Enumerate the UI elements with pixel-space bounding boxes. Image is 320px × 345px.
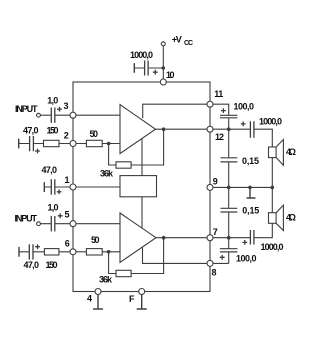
svg-text:47,0: 47,0 (24, 260, 40, 270)
label +Vcc (172, 35, 193, 48)
node pin-9 wire / cap junction (227, 186, 231, 190)
label pin 2 (64, 130, 69, 140)
capacitor 100,0 (pin 7 - pin 8): lead top (228, 238, 230, 249)
bias block rectangle (120, 176, 157, 197)
capacitor 47,0 (row 6): plus mark (35, 244, 40, 249)
label 1000,0 (output 1) (259, 117, 282, 127)
capacitor 1000,0 output 2: plates (250, 230, 254, 245)
svg-text:INPUT: INPUT (15, 104, 38, 114)
label 47,0 (row 2) (23, 125, 39, 135)
svg-text:1000,0: 1000,0 (259, 117, 282, 127)
node 50-resistor / feedback junction (bottom) (107, 250, 111, 254)
resistor 150 (row 2) (44, 140, 60, 146)
svg-text:7: 7 (213, 227, 218, 237)
label pin 9 (213, 177, 218, 187)
wire feedback loop U1.2 (109, 238, 164, 274)
resistor 150 (row 6) (44, 249, 59, 255)
label 150 (row 2) (47, 125, 59, 135)
wire feedback loop U1.1 (109, 129, 164, 165)
capacitor 47,0 (row 2): plates (30, 136, 34, 151)
wire U1.1 output row (apex to pin 12 to cap) (156, 128, 251, 130)
capacitor 0,15 (pin 9 - pin 7): plates (221, 208, 238, 212)
svg-text:1,0: 1,0 (47, 96, 58, 106)
wire pin 7 output row right / speaker 2 bottom (255, 223, 273, 237)
capacitor 47,0 (row 6): plates (29, 244, 33, 259)
svg-text:150: 150 (46, 260, 58, 270)
pin 6 (70, 249, 76, 255)
label pin F (129, 294, 135, 304)
svg-text:12: 12 (215, 132, 224, 142)
loudspeaker 1 (4 ohm): cone (276, 140, 283, 166)
pin F (139, 289, 145, 295)
resistor 36k (U1.2) (116, 270, 131, 276)
node pin-7 wire / cap junction (227, 236, 231, 240)
capacitor 100,0 (pin 11 - pin 12): plus mark (221, 108, 226, 113)
label 4 ohm (speaker 1) (286, 147, 296, 157)
label pin 5 (65, 209, 70, 219)
terminal INPUT 1 (37, 113, 41, 117)
pin 10 (160, 79, 166, 85)
capacitor 0,15 (pin 12 - pin 9): lead bottom (228, 162, 230, 187)
terminal +Vcc (161, 42, 165, 46)
capacitor 1000,0 output 2: plus mark (242, 240, 247, 245)
pin 5 (70, 221, 76, 227)
terminal INPUT 2 (37, 222, 41, 226)
IC box (73, 82, 210, 292)
label pin 3 (64, 101, 69, 111)
ground symbol (pin F) (137, 295, 147, 310)
label 100,0 (bottom) (236, 253, 257, 263)
wire feedback return row pin 2 (19, 143, 120, 145)
pin 12 (207, 126, 213, 132)
capacitor 100,0 (pin 11 - pin 12): lead (228, 118, 230, 129)
capacitor 100,0 (pin 7 - pin 8): plus mark (220, 255, 225, 260)
pin 9 (207, 184, 213, 190)
pin 2 (70, 141, 76, 147)
svg-text:1: 1 (218, 89, 223, 99)
wire input row pin 3 (40, 114, 120, 116)
svg-text:1000,0: 1000,0 (130, 50, 153, 60)
ground symbol (pin 9 row) (247, 187, 256, 198)
label 36k (U1.2) (99, 274, 113, 284)
loudspeaker 1 (4 ohm): frame (269, 147, 277, 158)
wire +Vcc vertical (162, 46, 164, 82)
svg-text:8: 8 (212, 268, 217, 278)
label INPUT 1 (15, 104, 38, 114)
node Vcc/cap junction (162, 66, 166, 70)
svg-text:5: 5 (65, 209, 70, 219)
wire U1.1 top-slope tap to pin 11 (143, 104, 229, 118)
svg-text:4Ω: 4Ω (286, 147, 296, 157)
capacitor 1000,0 output 1: plus mark (241, 122, 246, 127)
label pin 7 (213, 227, 218, 237)
capacitor 100,0 (pin 7 - pin 8): lead bottom (228, 252, 230, 263)
capacitor 1,0 input 2: plus mark (58, 213, 63, 218)
node U1.1 output junction (162, 127, 166, 131)
node pin-9 wire / speaker column (271, 186, 275, 190)
label 4 ohm (speaker 2) (286, 212, 296, 222)
capacitor 100,0 (pin 11 - pin 12): plates (220, 115, 238, 118)
svg-text:47,0: 47,0 (23, 125, 39, 135)
capacitor 0,15 (pin 12 - pin 9): plates (221, 158, 238, 162)
pin 4 (95, 289, 101, 295)
wire feedback return row pin 6 (19, 251, 120, 253)
svg-text:4: 4 (87, 294, 92, 304)
label 1000,0 (Vcc filter) (130, 50, 153, 60)
wire U1.2 bottom-slope tap to pin 8 (143, 247, 229, 263)
label 0,15 (bottom) (242, 206, 259, 216)
svg-text:4Ω: 4Ω (286, 212, 296, 222)
capacitor 47,0 (row 1): plates (51, 179, 55, 194)
svg-text:47,0: 47,0 (42, 165, 58, 175)
label 50 (row 6) (91, 235, 100, 245)
capacitor 1000,0 Vcc filter: ground end bar (133, 63, 135, 73)
svg-text:0,15: 0,15 (242, 206, 259, 216)
wire bias block bottom tap to U1.2 (141, 197, 143, 228)
node pin-9 wire / ground tap (248, 186, 252, 190)
svg-text:50: 50 (91, 235, 100, 245)
capacitor 1,0 input 1: plus mark (57, 107, 62, 112)
wire U1.2 output row (apex to pin 7 to cap) (156, 237, 250, 239)
label pin 6 (65, 238, 70, 248)
capacitor 1000,0 Vcc filter: plus mark (153, 70, 158, 75)
label pin 8 (212, 268, 217, 278)
wire input row pin 5 (40, 223, 120, 225)
label 1,0 (input 2) (48, 203, 59, 213)
node pin-12 wire / cap junction (227, 127, 231, 131)
resistor 36k (U1.1) (116, 162, 131, 168)
svg-text:150: 150 (47, 125, 59, 135)
svg-text:1: 1 (65, 175, 70, 185)
capacitor 0,15 (pin 9 - pin 7): lead bottom (228, 213, 230, 238)
label pin 12 (215, 132, 224, 142)
svg-text:9: 9 (213, 177, 218, 187)
op-amp U1.1 (top amplifier) (120, 105, 156, 154)
label 150 (row 6) (46, 260, 58, 270)
pin 3 (70, 112, 76, 118)
capacitor 1,0 input 1: plates (51, 108, 55, 123)
wire speaker column (speaker1 to row9 to speaker2) (271, 158, 273, 213)
svg-text:6: 6 (65, 238, 70, 248)
capacitor 47,0 (row 2): plus mark (35, 149, 40, 154)
label 1,0 (input 1) (47, 96, 58, 106)
op-amp U1.2 (bottom amplifier) (120, 213, 156, 262)
label INPUT 2 (15, 214, 38, 224)
svg-text:100,0: 100,0 (236, 253, 257, 263)
resistor 50 (row 6) (86, 249, 102, 255)
label pin 10 (166, 70, 175, 80)
svg-text:CC: CC (184, 40, 193, 47)
label pin 1 (65, 175, 70, 185)
wire row pin 1 to bias block (44, 186, 120, 188)
svg-text:3: 3 (64, 101, 69, 111)
ground end bar (row 6) (18, 247, 20, 257)
capacitor 100,0 (pin 7 - pin 8): plates (220, 249, 238, 252)
capacitor 1000,0 Vcc filter: wire (134, 67, 163, 69)
svg-text:36k: 36k (100, 169, 114, 179)
label 0,15 (top) (242, 156, 259, 166)
loudspeaker 2 (4 ohm): frame (269, 213, 277, 224)
label 47,0 (row 1) (42, 165, 58, 175)
wire pin 12 output row right / to speaker 1 (250, 129, 272, 147)
svg-text:10: 10 (166, 70, 175, 80)
svg-text:0,15: 0,15 (242, 156, 259, 166)
pin 7 (207, 235, 213, 241)
capacitor 1000,0 Vcc filter: plates (145, 61, 149, 76)
loudspeaker 2 (4 ohm): cone (276, 205, 283, 230)
label 36k (U1.1) (100, 169, 114, 179)
svg-text:+V: +V (172, 35, 182, 45)
capacitor 1000,0 output 1: plates (250, 121, 254, 138)
svg-text:F: F (129, 294, 135, 304)
label 1000,0 (output 2) (261, 242, 284, 252)
label pin 11 (214, 89, 223, 99)
pin 1 (70, 184, 76, 190)
label pin 4 (87, 294, 92, 304)
svg-text:50: 50 (90, 129, 99, 139)
svg-text:1,0: 1,0 (48, 203, 59, 213)
svg-text:2: 2 (64, 130, 69, 140)
capacitor 0,15 (pin 12 - pin 9): lead top (228, 129, 230, 157)
capacitor 47,0 (row 1): plus mark (57, 190, 62, 195)
ground symbol (pin 4) (93, 295, 103, 310)
wire bias block top tap to U1.1 (141, 139, 143, 176)
node U1.2 output junction (162, 236, 166, 240)
svg-text:1000,0: 1000,0 (261, 242, 284, 252)
pin 11 (207, 101, 213, 107)
label 50 (row 2) (90, 129, 99, 139)
pin 8 (207, 260, 213, 266)
ground end bar (row 2) (18, 139, 20, 149)
resistor 50 (row 2) (86, 140, 102, 146)
svg-text:INPUT: INPUT (15, 214, 38, 224)
wire pin 9 row (speaker midpoint / ground) (210, 186, 272, 188)
label 100,0 (top) (234, 102, 255, 112)
svg-text:100,0: 100,0 (234, 102, 255, 112)
capacitor 1,0 input 2: plates (51, 216, 55, 231)
capacitor 0,15 (pin 9 - pin 7): lead top (228, 187, 230, 207)
node 50-resistor / feedback junction (top) (107, 142, 111, 146)
svg-text:36k: 36k (99, 274, 113, 284)
ground end bar (row 1) (43, 182, 45, 192)
label 47,0 (row 6) (24, 260, 40, 270)
